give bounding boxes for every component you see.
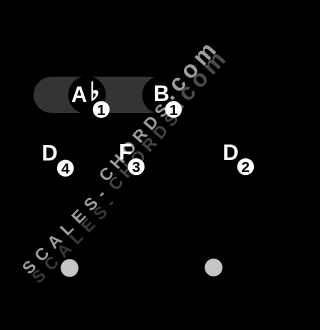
- flat sign: [91, 81, 93, 101]
- svg-text:1: 1: [169, 102, 177, 119]
- finger 4 circle (D left): [57, 160, 74, 178]
- finger 1 circle (Ab): [93, 101, 110, 119]
- note disc Ab: [68, 76, 106, 114]
- svg-text:B: B: [154, 81, 170, 106]
- barre bar fret 1: [34, 77, 169, 113]
- open-string dot left: [61, 259, 79, 277]
- svg-text:4: 4: [61, 161, 70, 178]
- finger 2 circle (D right): [237, 158, 254, 176]
- svg-text:2: 2: [241, 159, 249, 176]
- note label Ab: [71, 81, 98, 107]
- open-string dot right: [205, 259, 223, 277]
- svg-text:D: D: [42, 140, 58, 165]
- svg-text:3: 3: [132, 159, 140, 176]
- finger 1 circle (B): [165, 101, 182, 119]
- svg-text:D: D: [223, 140, 239, 165]
- note disc B: [142, 76, 180, 114]
- finger 3 circle (F): [128, 158, 145, 176]
- svg-text:A: A: [71, 82, 87, 107]
- svg-text:1: 1: [97, 102, 105, 119]
